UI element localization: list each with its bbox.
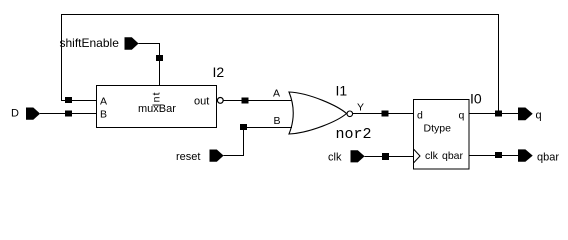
svg-text:qbar: qbar — [442, 150, 464, 162]
junction at reset corner node B — [240, 124, 247, 130]
pin connector reset — [210, 150, 224, 162]
pin connector qbar — [518, 149, 533, 161]
wire reset vertical — [243, 128, 245, 156]
svg-text:Y: Y — [357, 102, 364, 114]
svg-text:q: q — [459, 110, 465, 122]
svg-text:shiftEnable: shiftEnable — [60, 36, 120, 50]
wire feedback right vertical — [498, 14, 500, 114]
wire reset horizontal — [224, 155, 245, 157]
wire node B to nor2 input B — [244, 127, 293, 129]
svg-text:D: D — [11, 108, 19, 120]
wire shiftEnable horizontal — [139, 43, 161, 45]
nor2 gate I1 body — [289, 92, 347, 134]
junction on D wire — [65, 111, 72, 117]
svg-text:I1: I1 — [336, 83, 348, 99]
svg-text:reset: reset — [176, 151, 200, 163]
junction on Y wire — [382, 111, 389, 117]
wire mux out to nor2 input A — [224, 100, 293, 102]
mux I2 box — [97, 86, 217, 128]
wire feedback top horizontal — [61, 14, 498, 16]
pin connector clk — [351, 150, 365, 162]
wire clk to Dtype clock pin — [365, 156, 414, 158]
mux out bubble — [217, 98, 223, 104]
junction on node A wire — [65, 97, 72, 103]
svg-text:muxBar: muxBar — [138, 103, 176, 115]
wire feedback left vertical — [61, 14, 63, 100]
junction q feedback node — [495, 111, 502, 117]
svg-text:I2: I2 — [213, 64, 225, 80]
wire shiftEnable vertical to mux Int pin — [159, 44, 161, 86]
junction on qbar wire — [495, 152, 502, 158]
junction on out wire — [242, 98, 249, 104]
svg-text:B: B — [100, 109, 107, 121]
svg-text:A: A — [273, 88, 280, 100]
svg-text:clk: clk — [328, 152, 342, 164]
Dtype I0 box — [414, 100, 470, 170]
svg-text:q: q — [536, 110, 542, 122]
junction on clk wire — [382, 153, 389, 160]
svg-text:A: A — [100, 95, 107, 107]
pin connector q — [518, 108, 533, 121]
wire Dtype qbar to output qbar — [469, 155, 519, 157]
svg-text:nor2: nor2 — [336, 126, 372, 143]
wire node A into mux pin A — [61, 100, 97, 102]
pin connector D — [26, 108, 40, 120]
Dtype clock chevron — [414, 149, 421, 163]
svg-text:I0: I0 — [470, 91, 482, 107]
wire D to mux pin B — [40, 113, 97, 115]
wire Dtype q to output q — [469, 113, 519, 115]
svg-text:clk: clk — [425, 150, 439, 162]
junction on shiftEnable vertical — [156, 55, 163, 61]
svg-text:B: B — [274, 115, 281, 127]
pin connector shiftEnable — [125, 37, 139, 50]
svg-text:Dtype: Dtype — [424, 123, 452, 135]
svg-text:out: out — [194, 96, 209, 108]
svg-text:d: d — [417, 110, 423, 122]
nor2 output bubble — [347, 111, 353, 117]
wire nor2 output Y to Dtype d — [353, 113, 414, 115]
svg-text:qbar: qbar — [537, 151, 559, 163]
